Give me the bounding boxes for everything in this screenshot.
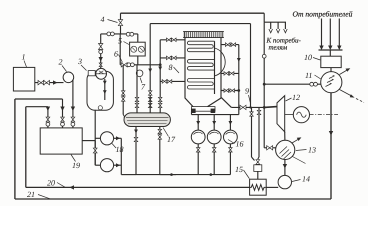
boiler foot left [191,109,196,113]
wire stem into box 15 [257,171,259,179]
svg-text:14: 14 [302,175,310,184]
box U1 raw water tank [13,67,34,91]
valve V4 [118,20,122,26]
valve y90 b [230,89,235,93]
flow arrow ej a [196,121,200,125]
box 15 [250,179,267,195]
flow arrow on x160 [158,67,162,71]
generator sine mark [297,112,307,117]
pump 14 circle [278,175,291,188]
node dot at end y64.8 [159,63,162,66]
svg-text:21: 21 [27,190,35,199]
valve tank drop x159.8 a [158,129,162,133]
rotor a in U5 [131,46,137,52]
boiler furnace body [185,38,193,107]
valve on manifold [93,148,97,153]
valve on y34 right [126,32,130,36]
valve x160 b [158,103,162,107]
return line a [321,19,323,46]
wire drop x264.2 to condenser [263,107,265,147]
valve circle on ejector branch [99,50,103,54]
wire loop20 to box19 [26,106,48,108]
flow arrow left on line 20 [70,185,75,189]
generator circle [293,107,309,123]
wire boiler outlet slant [221,98,231,108]
flow arrow ej b [212,121,216,125]
valve circle on x264.2 [262,54,266,58]
ejector 16 c [224,130,238,144]
boiler top cap hatched [184,32,223,38]
valve y58 b [172,56,177,60]
valve y73 b [229,72,234,76]
wire drop with valve 4 [120,13,122,34]
svg-text:20: 20 [47,179,55,188]
valve x123 b [121,97,125,101]
wire boiler left connector y58 [160,57,185,59]
consumer tap 3 [284,22,286,29]
flow arrow into tank 17 [124,117,128,121]
wire boiler left connector y40 [160,39,185,41]
svg-text:18: 18 [116,145,124,154]
valve above actuator box [256,160,260,165]
valve on y34 left [107,32,111,36]
valve V6 [121,63,127,67]
valve y40 a [167,38,172,42]
node dot x238.8/y90.5 [237,89,240,92]
fan 11 lower line [340,90,353,97]
flow arrow to ejector [99,57,103,62]
wire top header y13 [121,12,265,14]
valve V1a [38,80,44,84]
actuator box above 15 [254,165,262,172]
shaft dashdot [310,114,338,116]
valve x150.2 b [148,103,152,107]
wire drop x123 to tank17 [122,65,124,115]
turbine 12 [277,96,285,132]
consumer tap 2 [277,22,279,29]
tank 17 level line [126,116,169,118]
wire x264.2 riser [263,22,265,107]
valve y44 b [231,43,236,47]
valve small above ejector [99,63,102,67]
wire inner rect left drop [149,24,151,113]
flow arrow into pump 2 [53,80,58,84]
wire box15 to pump14 [266,186,278,188]
box 10 receiver [321,56,341,67]
vessel 3 bottom outlet mark [98,106,102,110]
flow arrow to pump 14 [283,164,287,169]
valve y40 b [172,38,177,42]
wire boiler right connector y90.5 [221,90,239,92]
node dot steam/x250.5 [249,106,251,108]
valve y90 a [224,89,229,93]
coil bundle B [187,60,214,71]
wire header y64.8 [119,34,121,64]
condenser vent arrow [292,139,299,143]
wire boiler left connector y81 [160,80,185,82]
flow arrow into box19 mid [60,107,64,112]
wire inner rect top [150,23,250,25]
vessel T3 deaerator body [87,71,113,110]
svg-text:3: 3 [77,57,82,66]
valve on x251.5 [250,112,254,116]
wire pump2 line into box19 [72,108,74,128]
wire box10 to fan 11 [330,68,332,72]
valve y58 a [167,56,172,60]
wire boiler right connector y73.4 [221,72,239,74]
node corner line21 right / wire riser to fan 11 [330,93,332,200]
tank drop x136 [135,127,137,175]
wire drop x259 [258,107,260,157]
svg-text:10: 10 [304,53,312,62]
svg-text:4: 4 [101,15,105,24]
flow arrow down on riser x331 [329,131,333,136]
ejector drop c [229,115,231,131]
ejector head on vessel 3 [96,68,107,79]
wire ej b out [213,144,215,175]
heating line to fan 11 [264,83,321,85]
node dot x264.2/y84.2 [263,83,266,86]
valve on x259 [257,110,261,114]
pump18 upper outlet [114,137,122,139]
valve box19 left [46,117,50,122]
valve y44 a [225,43,230,47]
valve ej b [212,148,216,152]
valve ej c [229,148,233,152]
wire pumps feed manifold [94,141,96,166]
wire box1 to pump2 [35,82,64,84]
wire drain collector y174.6 [121,174,136,176]
svg-text:От потребителей: От потребителей [293,9,353,18]
wire internal downpipe of vessel 3 [104,79,106,100]
valve on x151 upper [148,91,152,95]
flow arrow into box19 right [71,107,75,112]
boiler right arc pipe [215,48,226,76]
wire ej c out [229,144,231,175]
ejector 16 b [207,130,221,144]
wire drop x251.5 [251,107,253,157]
return line b [329,19,331,46]
flow arrow tank drop [134,130,138,134]
svg-text:6: 6 [114,50,118,59]
valve x137 a [135,97,139,101]
svg-text:2: 2 [59,58,63,67]
wire loop21 to box19 [15,98,63,100]
wire header y34 [101,33,138,35]
boiler left header x160 [159,40,161,113]
svg-text:12: 12 [292,93,300,102]
wire header y114.6 [192,114,239,116]
wire condenser to pump 14 [284,160,286,176]
rotor b in U5 [138,46,144,52]
valve tank drop x159.8 b [158,135,162,139]
svg-text:8: 8 [169,63,173,72]
wire branch down to ejector [100,34,102,69]
valve circles before fan [310,82,314,86]
flow arrow internal 2 [103,90,107,94]
shaft line [285,114,294,116]
wire vessel3 drain [94,110,96,165]
flow arrow on x238.8 [237,58,241,62]
wire box19 outlet [82,140,95,142]
node dot collector a [170,173,173,176]
valve x150.2 a [148,97,152,101]
svg-text:9: 9 [245,87,249,96]
wire U5 bottom stem [137,56,139,65]
pump 18 upper [100,132,113,145]
tank 17 body [124,113,170,127]
valve y81 a [162,80,167,84]
fan 11 blades [326,84,332,87]
wire ej a out [197,144,199,175]
pump 18 lower [100,159,113,172]
wire drop x137 with trap 7 [136,65,138,113]
trap loop 7 [136,70,143,77]
flow arrow internal 1 [103,81,107,85]
flow arrow ej c [229,121,233,125]
svg-text:16: 16 [236,140,244,149]
condenser 13 circle [276,140,295,159]
wire right collector x238.8 [238,45,240,115]
fitting on vessel3 top-left [88,71,95,76]
condenser aux line [293,157,306,164]
right riser header [214,41,216,94]
box 19 [40,128,82,154]
valve circles on y64.8 [127,63,131,67]
ejector drop a [197,115,199,131]
coil bundle C [187,79,214,90]
svg-text:телям: телям [269,44,288,52]
valve x137 b [135,103,139,107]
turbine exhaust to condenser [284,132,286,141]
valve y73 a [224,72,229,76]
boiler base [192,107,216,112]
boiler foot right [211,109,216,113]
valve V1b [44,80,50,84]
fan 11 discharge arrow [340,70,349,75]
main steam line to turbine [231,106,264,108]
svg-text:1: 1 [22,53,26,62]
ejector drop b [213,115,215,131]
tank drop x159.8 [159,127,161,175]
valve on ejector branch [99,44,103,50]
valve x123 a [121,91,125,95]
svg-text:11: 11 [305,71,312,80]
coil zigzag in 15 [250,185,266,191]
wire line 21 outer return loop [14,99,16,199]
return line c [338,19,340,46]
flow arrow into box19 left [46,107,50,112]
valve tank drop x136 [134,137,138,141]
svg-text:13: 13 [308,146,316,155]
svg-text:19: 19 [72,161,80,170]
fan 11 circle [321,72,342,93]
ejector 16 a [191,130,205,144]
node dot x264.2/steam [263,106,266,109]
coil bundle A [187,41,214,52]
valve before condenser 13 [267,146,273,150]
valve ej a [196,148,200,152]
wire boiler right connector y44.6 [221,44,239,46]
svg-text:15: 15 [235,165,243,174]
pump P2 circle [63,72,74,83]
node dot collector b [210,173,213,176]
flow arrow on x150.2 [148,69,152,73]
pump18 lower outlet [114,164,122,166]
box U5 [130,42,146,56]
condenser hatch [280,147,288,154]
wire line 20 inner return loop [25,107,27,188]
valve box19 right [71,117,75,122]
return collector [319,49,343,51]
wire top right corner [263,13,265,22]
wire inner rect right drop [250,24,252,108]
valve on steam line [240,105,246,109]
wire corner to unit 5 [137,34,139,42]
valve box19 mid [61,117,65,122]
wire pumps collector [120,138,122,174]
valve x160 a [158,97,162,101]
wire pump2 outlet drop [72,80,74,108]
valve y81 b [167,80,172,84]
consumer tap 1 [270,22,272,29]
